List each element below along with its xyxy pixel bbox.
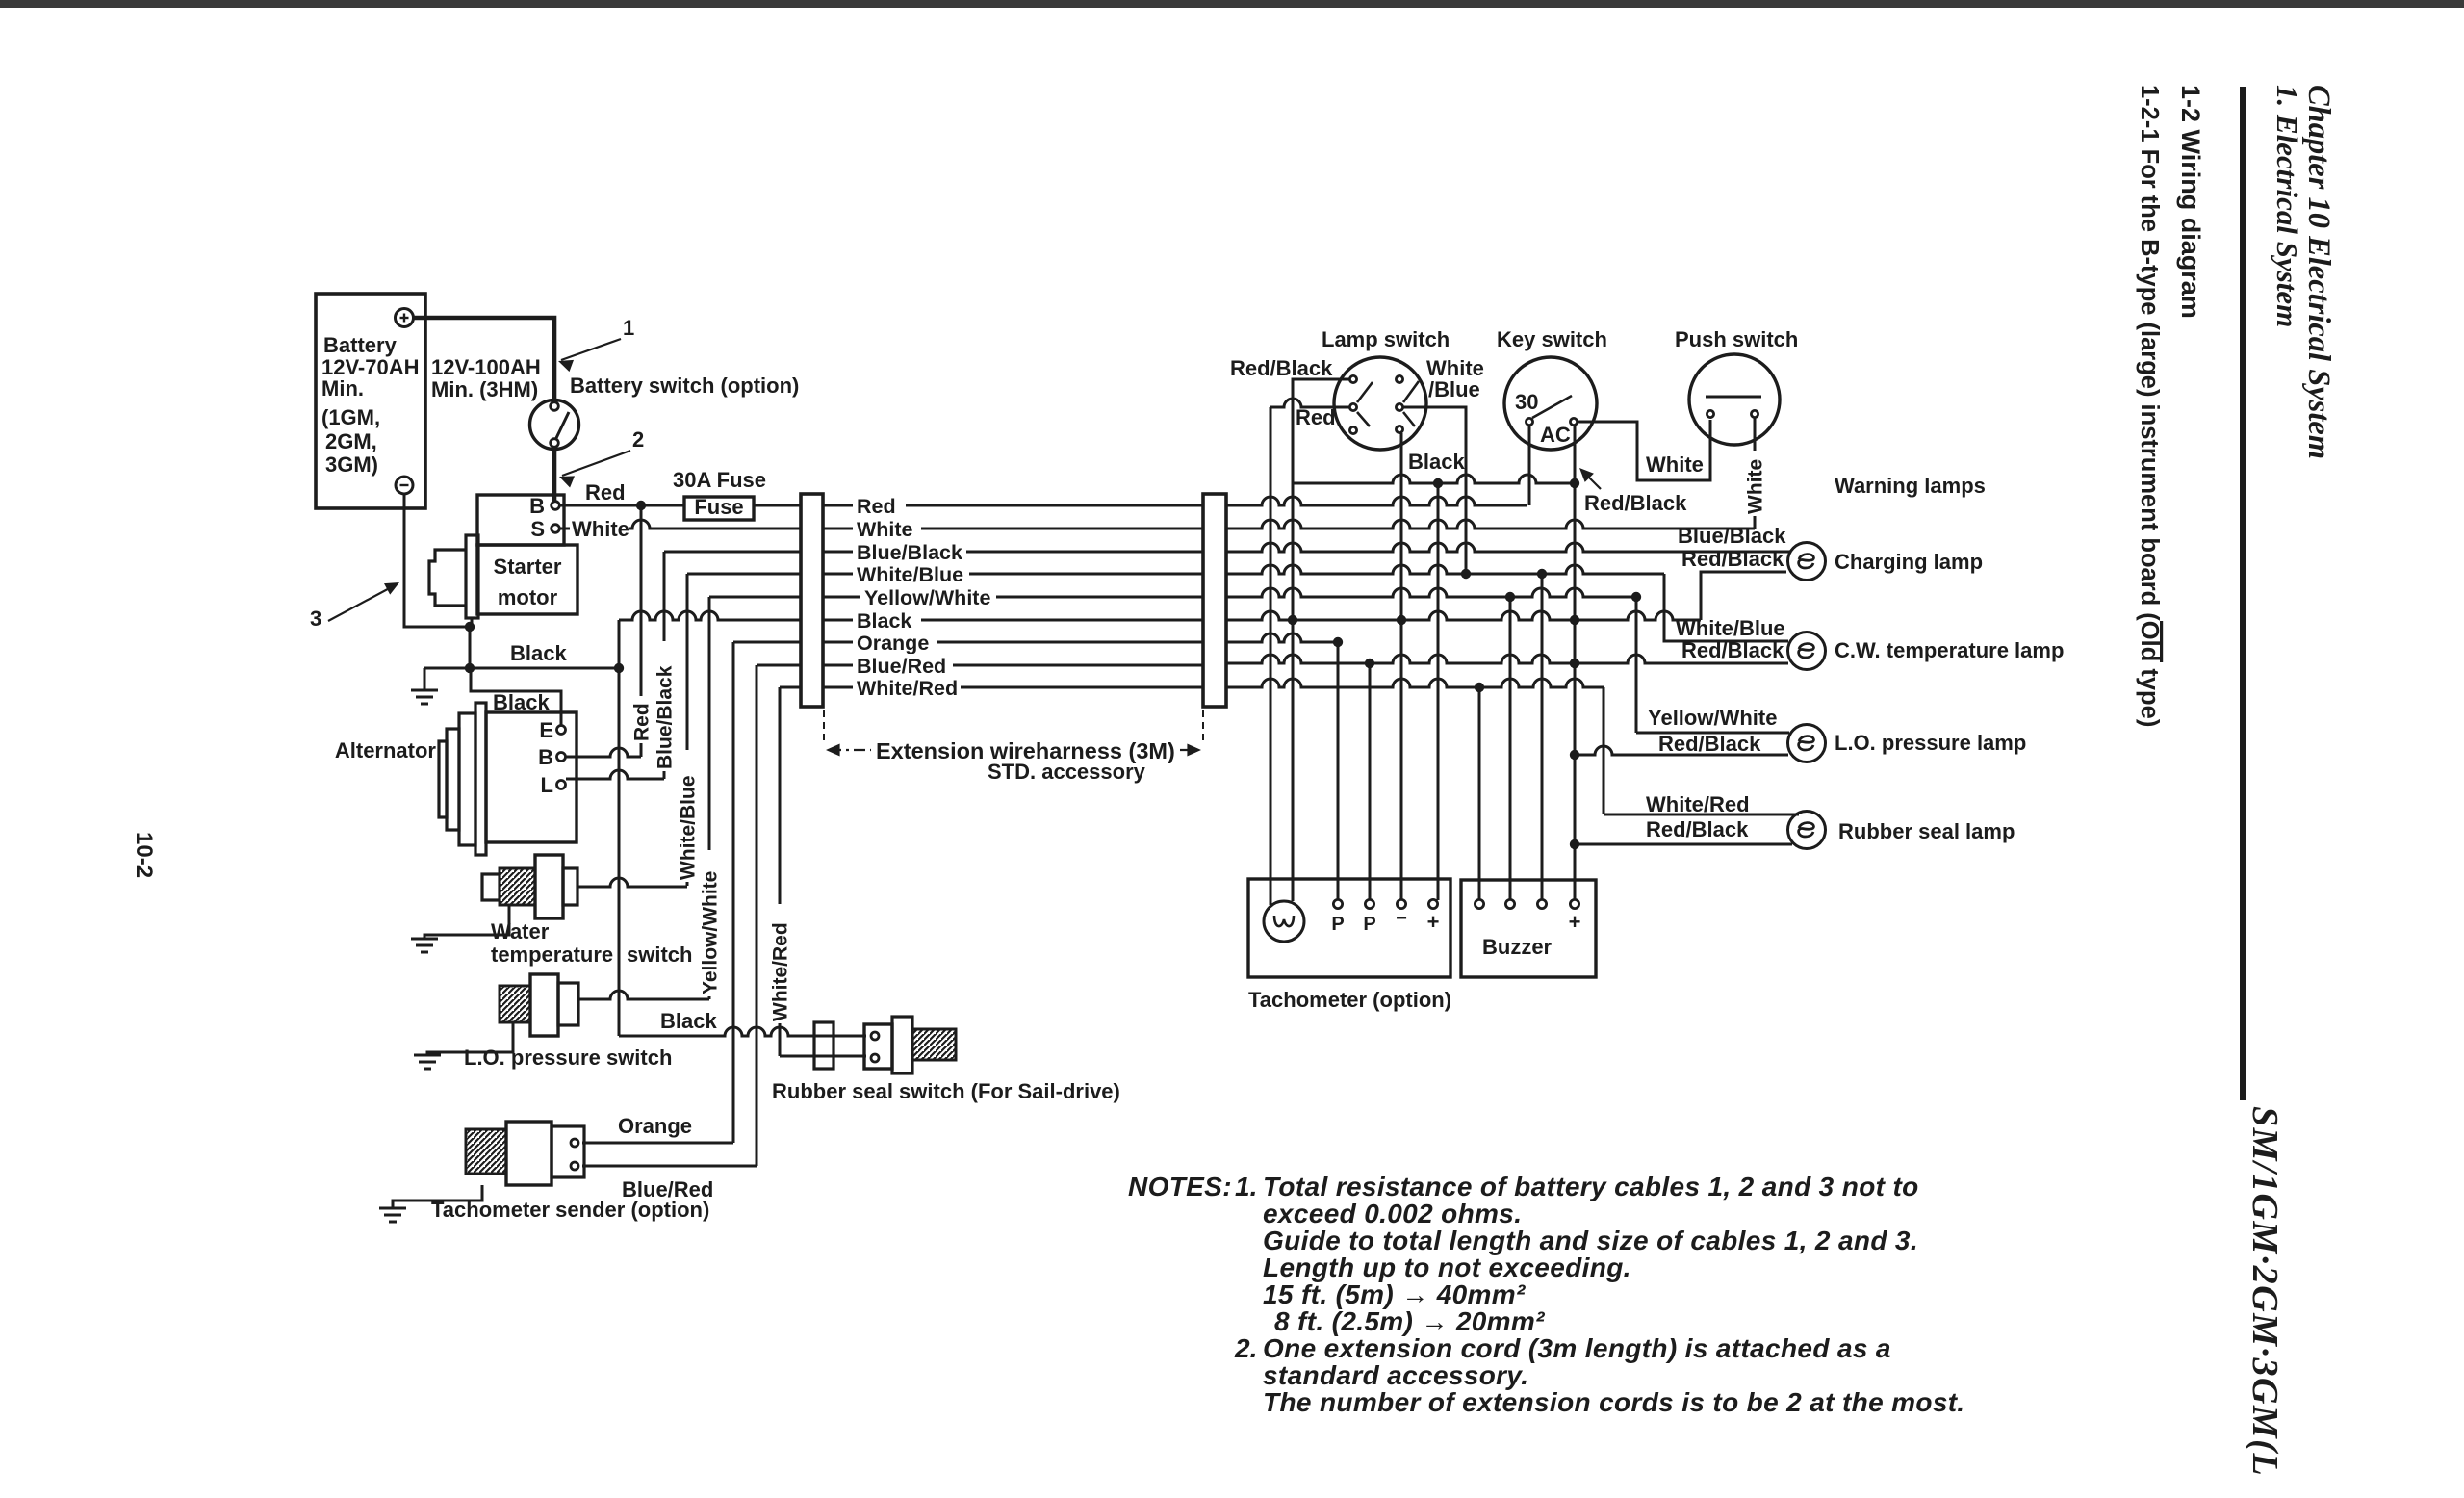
svg-text:Red/Black: Red/Black [1681,638,1784,662]
callout 2 [559,427,644,488]
tach sender terminals [571,1139,578,1170]
svg-text:White: White [1646,452,1704,477]
wire red B-to-fuse [559,504,684,507]
starter motor flange [429,535,478,627]
junction dot ground/black vertical [614,663,624,673]
battery switch (option) [530,400,579,450]
battery box [316,294,425,508]
push switch terminals [1707,410,1758,417]
label warning lamps [1835,474,1986,498]
wire white/red riser [779,687,782,1056]
top page border bar [0,0,2464,8]
wire red bus right [1226,497,1527,505]
svg-text:STD. accessory: STD. accessory [988,760,1146,784]
key switch circle [1504,357,1597,450]
label White/Red (riser) [769,922,791,1021]
push switch circle [1689,354,1780,445]
svg-text:+: + [1569,910,1581,934]
wire battery - down [404,494,470,668]
label Black (E wire) [493,690,550,714]
svg-text:Fuse: Fuse [694,495,743,519]
wire tach lamp return [1292,483,1295,901]
svg-text:Rubber seal lamp: Rubber seal lamp [1838,819,2015,843]
wire red/black rail [1574,426,1577,900]
extension harness dashed drop left [823,710,825,745]
wire lamp sw white/blue [1403,407,1466,574]
junction dot white/blue lamp sw [1461,569,1471,579]
battery switch label [570,374,799,398]
label Red/Black (charging) [1681,547,1784,571]
svg-text:30A Fuse: 30A Fuse [673,468,766,492]
svg-text:Alternator: Alternator [335,738,437,762]
svg-text:SM/1GM·2GM·3GM(L: SM/1GM·2GM·3GM(L [2245,1106,2285,1477]
label Red/Black (rubber) [1646,817,1749,841]
junction dot charging return [1570,615,1579,625]
water temperature switch [482,855,577,918]
svg-text:1: 1 [623,316,634,340]
wire buzzer t1 riser [1478,687,1481,900]
svg-text:Starter: Starter [494,555,562,579]
wire tach P1 riser [1337,642,1340,900]
water temp ground wire [424,905,509,939]
wire blue/red riser [756,665,758,1166]
buzzer box [1461,880,1596,977]
label water temperature switch [491,919,692,967]
label extension wireharness [876,738,1175,763]
junction dot orange P1 [1333,637,1343,647]
wire lamp sw red/black [1293,379,1349,483]
terminal E [539,718,565,742]
battery + terminal [396,309,414,327]
label cw temperature lamp [1835,638,2064,662]
svg-text:L.O. pressure lamp: L.O. pressure lamp [1835,731,2026,755]
label White (push riser) [1744,459,1766,514]
wire tach P2 riser [1369,663,1372,900]
svg-text:B: B [529,494,545,518]
svg-text:Black: Black [493,690,550,714]
callout 3 [310,582,399,631]
svg-text:One extension cord (3m length): One extension cord (3m length) is attach… [1263,1333,1891,1363]
junction dot rubber return [1570,839,1579,849]
label Red bus [853,494,906,518]
tachometer box [1248,879,1450,977]
tach terminals [1333,899,1437,908]
label Black bus [853,608,921,633]
svg-text:Length up to not exceeding.: Length up to not exceeding. [1263,1253,1631,1282]
junction dot rail/distribution [1570,478,1579,488]
svg-text:L: L [541,773,553,797]
svg-text:Red/Black: Red/Black [1681,547,1784,571]
svg-text:Warning lamps: Warning lamps [1835,474,1986,498]
wire whiteblue bus between connectors [823,573,1203,576]
charging lamp [1788,543,1826,581]
svg-text:Blue/Black: Blue/Black [654,665,676,769]
starter motor label [494,555,562,609]
svg-text:Red: Red [1296,405,1336,429]
svg-text:White/Blue: White/Blue [857,563,963,586]
wire orange bus between connectors [823,641,1203,644]
svg-text:Total resistance of battery ca: Total resistance of battery cables 1, 2 … [1263,1172,1919,1201]
svg-text:Red: Red [585,480,626,504]
terminal S [530,517,559,541]
fuse box [684,497,754,520]
wire white/red to bar [780,686,801,689]
svg-text:Yellow/White: Yellow/White [864,586,990,609]
svg-text:Blue/Black: Blue/Black [1678,524,1786,548]
tachometer sender [466,1122,584,1185]
wire red riser [640,509,643,757]
svg-text:White: White [572,517,629,541]
junction dot lo return [1570,750,1579,760]
svg-text:S: S [530,517,545,541]
wire yellow/white riser [708,597,711,999]
wire buzzer t2 riser [1509,597,1512,900]
svg-text:Battery: Battery [323,333,398,357]
wire orange bus right [1226,633,1338,642]
label tachometer option [1248,988,1451,1012]
buzzer plus label [1569,910,1581,934]
svg-text:Red: Red [857,495,896,518]
label lamp switch [1322,327,1450,351]
svg-text:Blue/Red: Blue/Red [857,655,946,678]
footer SM designation [2245,1106,2285,1477]
svg-text:Lamp switch: Lamp switch [1322,327,1450,351]
junction dot buzzer t2 [1505,592,1515,602]
wire yellow/white lamp feed [1636,597,1789,733]
svg-text:12V-100AH: 12V-100AH [431,355,541,379]
wire tach sender orange [582,1142,733,1145]
svg-text:1. Electrical System: 1. Electrical System [2271,85,2304,327]
svg-text:Tachometer (option): Tachometer (option) [1248,988,1451,1012]
rubber seal switch [814,1017,956,1073]
svg-text:Black: Black [510,641,567,665]
wire rubber seal return [1575,843,1792,846]
alternator body [439,703,486,855]
wire blue/red to bar [757,664,801,667]
svg-text:switch: switch [627,943,692,967]
ground symbol battery [411,668,438,704]
wire key 30 to red bus [1528,426,1531,505]
label Red/Black (rail) [1579,468,1687,515]
terminal L [541,773,566,797]
wire alternator L (blue/black) [566,770,664,779]
svg-text:Red/Black: Red/Black [1658,732,1761,756]
wire white/blue riser [686,574,689,886]
push switch contact bar [1706,396,1761,399]
label Black (rubber seal wire) [660,1009,717,1033]
label Blue/Black (riser) [654,665,676,769]
overline on Old [2160,621,2163,662]
svg-text:standard accessory.: standard accessory. [1263,1360,1528,1390]
notes text [1128,1172,1965,1417]
svg-text:Key switch: Key switch [1497,327,1607,351]
tach lamp [1264,901,1304,942]
wire white/blue to bar [687,573,801,576]
lamp switch levers [1357,381,1419,426]
svg-text:White/Blue: White/Blue [677,776,699,881]
svg-text:Orange: Orange [618,1114,692,1138]
wire blue/black to bar [664,551,801,554]
label Red/Black (lo) [1658,732,1761,756]
junction dot tach lamp return [1288,615,1297,625]
junction dot yellow/white [1631,592,1641,602]
svg-text:10-2: 10-2 [131,832,157,878]
svg-text:1-2-1 For the B-type (large) i: 1-2-1 For the B-type (large) instrument … [2136,85,2163,727]
svg-text:Chapter 10 Electrical System: Chapter 10 Electrical System [2301,85,2336,459]
svg-text:Min.: Min. [321,376,364,400]
svg-text:15 ft. (5m) → 40mm²: 15 ft. (5m) → 40mm² [1263,1279,1526,1309]
wire tach sender blue/red [582,1165,757,1168]
buzzer terminals [1475,899,1578,908]
wire yellow/white bus right [1226,588,1636,597]
label Blue/Red bus [853,654,953,678]
tach sender ground symbol [379,1208,406,1222]
label Orange bus [853,631,937,655]
page number 10-2 [131,832,157,878]
svg-text:Buzzer: Buzzer [1482,935,1553,959]
label key switch [1497,327,1607,351]
label Orange (sender) [618,1114,692,1138]
key switch 30 [1515,390,1538,414]
rubber seal terminals [871,1032,879,1062]
svg-text:3GM): 3GM) [325,452,378,477]
svg-text:B: B [538,745,553,769]
label 30A Fuse [673,468,766,492]
svg-text:motor: motor [498,585,558,609]
wire blue/red bus right + cw lamp return [1226,655,1788,663]
wire white/red lamp feed [1604,687,1799,814]
svg-text:Blue/Black: Blue/Black [857,541,962,564]
key switch lever [1532,396,1572,418]
lamp switch terminals [1349,375,1402,433]
connector bar right [1203,494,1226,707]
connector bar left [801,494,823,707]
svg-text:Yellow/White: Yellow/White [699,871,721,994]
junction dot minus/ground bus [465,663,475,673]
wire orange to bar [733,641,801,644]
svg-text:−: − [1396,908,1407,929]
wire switch to B terminal [552,448,557,502]
wire black bus right + charging lamp return [1226,572,1786,620]
wire alternator B (red) [566,748,641,757]
label Yellow/White (lo) [1648,706,1777,730]
svg-text:1.: 1. [1235,1172,1257,1201]
key switch AC [1540,423,1571,447]
label Black (lamp sw) [1408,450,1465,474]
wire yellow/white to bar [709,596,801,599]
wire key AC link [1578,420,1710,480]
label White/Red (rubber) [1646,792,1750,816]
wire black to bar [619,611,801,620]
ground bus black wire [424,667,619,670]
label White/Blue (riser) [677,776,699,881]
label rubber seal lamp [1838,819,2015,843]
svg-text:1-2 Wiring diagram: 1-2 Wiring diagram [2176,85,2205,319]
starter motor body box [477,545,577,614]
svg-text:White/Red: White/Red [769,922,791,1021]
header rule [2240,87,2246,1100]
rubber seal lamp [1788,812,1826,849]
junction dot cw return [1570,659,1579,668]
svg-text:30: 30 [1515,390,1538,414]
wire black vertical riser [618,620,621,1036]
svg-text:P: P [1331,914,1344,935]
svg-text:Black: Black [1408,450,1465,474]
svg-text:White/Red: White/Red [1646,792,1750,816]
svg-text:Black: Black [857,609,911,633]
alternator label [335,738,437,762]
tach sender ground wire [393,1185,482,1208]
label LO pressure switch [464,1046,672,1070]
svg-text:Water: Water [491,919,550,943]
battery label [321,333,420,477]
label Yellow/White bus [860,585,996,609]
junction dot minus/starter [465,622,475,632]
wire whitered bus between connectors [823,686,1203,689]
extension harness dashed drop right [1202,710,1204,745]
wire alternator E ground [471,668,561,725]
svg-text:L.O. pressure switch: L.O. pressure switch [464,1046,672,1070]
wire red/black distribution [1293,475,1575,483]
extension harness dimension line [826,744,1201,757]
wire red fuse-to-bar [754,504,801,507]
cw temperature lamp [1788,633,1826,670]
wire lamp sw black [1400,433,1403,900]
svg-text:AC: AC [1540,423,1571,447]
lo pressure lamp [1788,725,1826,762]
label White /Blue [1426,356,1484,401]
wire white/blue bus right + cw lamp feed [1226,565,1788,641]
svg-text:C.W. temperature lamp: C.W. temperature lamp [1835,638,2064,662]
starter B/S terminal box [477,495,564,545]
svg-text:White: White [1744,459,1766,514]
LO ground wire [427,1022,513,1055]
wire white bus right [1226,520,1755,529]
label tachometer sender [431,1198,709,1222]
label Blue/Red (sender) [622,1177,713,1201]
wire LO pressure to yellow/white [578,991,709,999]
label White/Blue (cw) [1676,616,1785,640]
label Yellow/White (riser) [699,871,721,994]
svg-text:NOTES:: NOTES: [1128,1172,1232,1201]
battery - terminal [396,477,413,494]
wire white bus between connectors [823,528,1203,530]
label buzzer [1482,935,1553,959]
fuse label [694,495,743,519]
label charging lamp [1835,550,1983,574]
wire orange riser [732,642,735,1143]
wire battery + to switch [413,318,554,401]
junction dot blue/red P2 [1365,659,1374,668]
junction dot black lamp sw [1397,615,1406,625]
svg-text:temperature: temperature [491,943,613,967]
svg-text:Min. (3HM): Min. (3HM) [431,377,538,401]
label White (AC-push) [1646,452,1704,477]
label Red (B wire) [585,480,626,504]
svg-text:Guide to total length and size: Guide to total length and size of cables… [1263,1226,1918,1255]
label lo pressure lamp [1835,731,2026,755]
LO ground symbol [414,1055,441,1069]
wire yellowwhite bus between connectors [823,596,1203,599]
svg-text:8 ft. (2.5m) → 20mm²: 8 ft. (2.5m) → 20mm² [1274,1306,1545,1336]
svg-text:2: 2 [632,427,644,452]
wire buzzer t3 riser [1541,574,1544,900]
chapter header line 2 [2271,85,2304,327]
label White/Red bus [853,676,961,700]
wire tach plus riser [1437,483,1440,900]
svg-text:exceed 0.002 ohms.: exceed 0.002 ohms. [1263,1199,1522,1228]
wire blueblack bus between connectors [823,551,1203,554]
svg-text:Red/Black: Red/Black [1230,356,1333,380]
wire push right down [1754,418,1757,529]
callout 1 [558,316,634,372]
wire red bus between connectors [823,504,1203,507]
svg-text:P: P [1363,914,1375,935]
junction dot buzzer t1 [1475,683,1484,692]
wire black to rubber seal [619,1027,866,1036]
svg-text:Red/Black: Red/Black [1646,817,1749,841]
svg-text:Rubber seal switch (For Sail-d: Rubber seal switch (For Sail-drive) [772,1079,1120,1103]
label White/Blue bus [853,562,969,586]
wire blue/black riser [663,552,666,779]
svg-text:Black: Black [660,1009,717,1033]
junction dot tach plus [1433,478,1443,488]
wire white S-to-bar [559,520,801,529]
water temp ground symbol [411,939,438,952]
svg-text:Orange: Orange [857,632,929,655]
lamp switch circle [1334,357,1426,450]
svg-text:Red: Red [630,703,653,741]
svg-text:Tachometer sender (option): Tachometer sender (option) [431,1198,709,1222]
svg-text:The number of extension cords: The number of extension cords is to be 2… [1263,1387,1965,1417]
wire blue/black bus right (to charging lamp) [1226,543,1791,552]
junction dot red riser [636,501,646,510]
wire black bus between connectors [823,619,1203,622]
battery 3HM label [431,355,541,401]
svg-text:/Blue: /Blue [1428,377,1480,401]
chapter header line 1 [2301,85,2336,459]
svg-text:Push switch: Push switch [1675,327,1798,351]
wire white/red to rubber seal [780,1055,866,1058]
wire lamp sw red (to tach lamp) [1270,399,1349,905]
svg-text:White: White [857,518,913,541]
label rubber seal switch [772,1079,1120,1103]
wire water temp to white/blue [577,878,687,887]
section title 1-2-1 [2136,85,2163,727]
section title 1-2 [2176,85,2205,319]
label Red (riser) [630,703,653,741]
L.O. pressure switch [500,974,578,1036]
label White (S wire) [570,517,629,541]
label Red/Black (cw) [1681,638,1784,662]
svg-text:(1GM,: (1GM, [321,405,380,429]
junction dot buzzer t3 [1537,569,1547,579]
label White bus [853,517,921,541]
svg-text:2GM,: 2GM, [325,429,377,453]
tach terminal labels [1331,908,1439,935]
svg-text:+: + [1427,910,1440,934]
key switch terminals [1526,418,1577,425]
svg-text:White/Red: White/Red [857,677,958,700]
wire bluered bus between connectors [823,664,1203,667]
svg-text:3: 3 [310,607,321,631]
label Black (ground bus) [510,641,567,665]
svg-text:Charging lamp: Charging lamp [1835,550,1983,574]
label push switch [1675,327,1798,351]
label STD accessory [988,760,1146,784]
svg-text:Red/Black: Red/Black [1584,491,1687,515]
label Blue/Black (charging) [1678,524,1786,548]
